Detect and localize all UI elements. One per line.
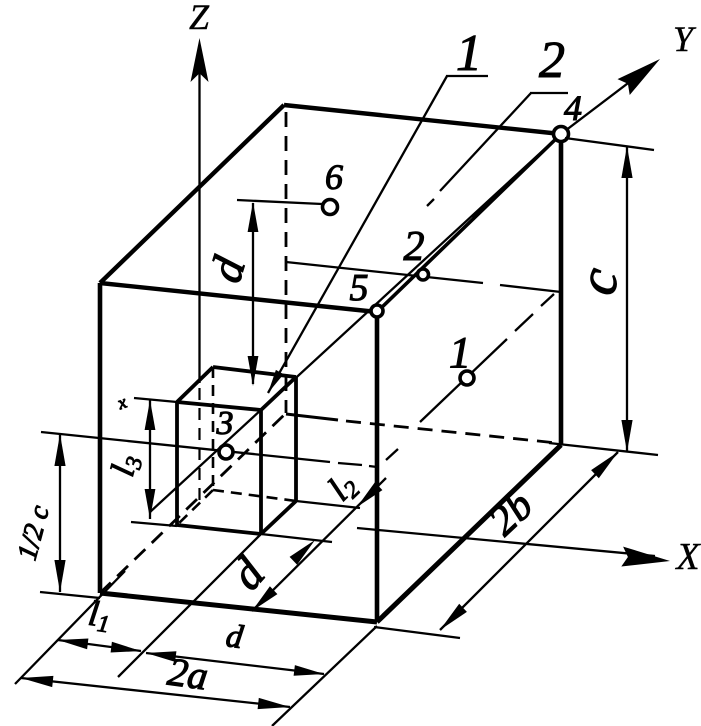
extension line through small box back-bottom corner X-dir: [296, 501, 360, 508]
Y axis arrowhead: [618, 59, 661, 95]
right face mid-height dash a: [386, 449, 398, 460]
dimension d horizontal right arrowhead: [294, 665, 324, 676]
small box hidden bottom-left edge: [177, 490, 213, 525]
stray dash between axis and edge a: [473, 204, 487, 218]
svg-text:5: 5: [350, 267, 369, 309]
dimension 2a right arrowhead: [258, 698, 290, 709]
svg-text:4: 4: [564, 88, 582, 128]
big box back-right vertical edge: [559, 134, 564, 445]
back face mid-height line right part: [500, 285, 561, 292]
small box top-front edge: [177, 402, 261, 410]
leader line 2 end dash: [427, 199, 434, 206]
dimension d bottom arrowhead: [248, 356, 259, 386]
dimension half-c top arrowhead: [54, 434, 65, 466]
leader line 2: [440, 93, 531, 191]
small box top-left edge: [177, 367, 213, 402]
dimension c line: [626, 146, 628, 452]
Y axis line beyond point 4: [561, 68, 648, 134]
dimension d depth and l2 shared line: [252, 478, 386, 611]
point 4 circle: [554, 127, 569, 142]
dimension l3 line: [149, 400, 151, 519]
dimension half-c bottom extension line: [40, 592, 100, 598]
dimension 2a left arrowhead: [21, 676, 53, 687]
svg-text:3: 3: [216, 405, 234, 442]
point 2 circle: [418, 269, 429, 280]
big box hidden bottom-back edge start segment: [286, 414, 338, 420]
dimension l3 bottom extension line: [131, 522, 177, 526]
dimension c top extension line: [565, 138, 654, 150]
dimension d horizontal line: [146, 653, 324, 674]
extension line from small box front-bottom-right corner: [118, 534, 261, 677]
small box front vertical edge: [259, 410, 263, 534]
stray dash between axis and edge b: [494, 183, 509, 197]
Y axis line: [150, 134, 561, 512]
big box top-left edge: [100, 105, 284, 283]
dimension 2b upper arrowhead: [591, 452, 618, 478]
dimension l1 right arrowhead: [111, 642, 141, 653]
back face mid-height line left part: [286, 262, 483, 283]
dimension d vertical line: [252, 203, 254, 384]
dimension l3 top extension line: [134, 398, 177, 402]
dimension 2b lower arrowhead: [440, 604, 467, 630]
leader line 1: [268, 76, 447, 393]
big box hidden bottom-left edge: [100, 415, 284, 593]
big box bottom-front edge: [100, 593, 377, 622]
point 6 horizontal line: [237, 200, 322, 204]
big box hidden back-left vertical edge: [285, 112, 288, 413]
Z axis arrowhead: [191, 38, 209, 82]
leader line 1 underline: [446, 75, 488, 77]
dimension l1 line: [58, 640, 141, 651]
svg-text:1: 1: [456, 25, 482, 82]
dimension d top arrowhead: [248, 202, 259, 232]
point 5 circle: [371, 305, 383, 317]
dimension 2b line: [440, 452, 618, 630]
svg-text:Z: Z: [189, 0, 210, 37]
dimension c bottom arrowhead: [621, 420, 632, 452]
dimension l3 bottom arrowhead: [145, 489, 156, 519]
svg-text:2: 2: [404, 224, 425, 270]
right face mid-height dash c: [541, 294, 554, 306]
big box bottom-right edge: [377, 445, 561, 622]
small box right vertical edge: [294, 377, 298, 501]
front face mid-height line: [41, 432, 330, 462]
dimension d depth lower arrowhead: [252, 586, 277, 611]
point 6 circle: [323, 200, 338, 215]
extension line from big box bottom-right front corner: [272, 626, 377, 726]
svg-text:2: 2: [539, 32, 565, 89]
front face mid-height line dash a: [338, 463, 362, 465]
dimension d horizontal left arrowhead: [146, 651, 176, 662]
point 1 circle: [460, 371, 474, 385]
small box hidden bottom-back edge: [213, 490, 296, 501]
dimension 2b lower extension line: [374, 627, 460, 638]
right face mid-height dash b: [515, 314, 533, 331]
dimension l1 left arrowhead: [58, 639, 88, 650]
dimension half-c bottom arrowhead: [54, 560, 65, 592]
svg-text:1: 1: [449, 328, 471, 377]
small box bottom-front edge: [177, 525, 261, 534]
big box front-left vertical edge: [98, 283, 103, 593]
dimension 2a line: [21, 678, 290, 707]
Z axis hidden dashed part: [198, 388, 200, 503]
big box front-right vertical edge: [375, 312, 380, 622]
small box left vertical edge: [175, 402, 179, 525]
leader line 2 underline: [530, 92, 568, 94]
small box top-right edge: [261, 377, 296, 410]
right face mid-height solid part: [420, 339, 507, 422]
dimension c bottom extension line: [549, 443, 658, 455]
dimension d depth upper arrowhead: [290, 540, 315, 565]
point 3 circle: [219, 445, 233, 459]
big box top-front edge: [100, 283, 377, 312]
X axis line: [357, 528, 655, 556]
Z axis solid line: [198, 52, 200, 383]
X axis arrowhead: [621, 547, 670, 567]
svg-text:X: X: [674, 536, 701, 578]
front face mid-height line dash b: [369, 466, 377, 467]
dimension l2 arrowhead: [357, 482, 382, 507]
dimension half-c line: [59, 434, 61, 592]
dimension c top arrowhead: [621, 146, 632, 178]
small box bottom-right edge: [261, 501, 296, 534]
big box hidden bottom-back edge: [346, 421, 557, 443]
svg-text:6: 6: [325, 157, 343, 197]
extension line from big box bottom-left corner: [15, 571, 125, 684]
big box top-right edge: [377, 134, 561, 312]
small box hidden vertical edge: [212, 367, 215, 490]
extension line through small box front-bottom corner X-dir: [261, 534, 332, 542]
dimension l3 top arrowhead: [145, 400, 156, 430]
svg-text:2a: 2a: [165, 649, 211, 699]
small box top-back edge: [213, 367, 296, 377]
leader line 1 end arrowhead: [268, 370, 284, 393]
big box top-back edge: [284, 105, 561, 134]
